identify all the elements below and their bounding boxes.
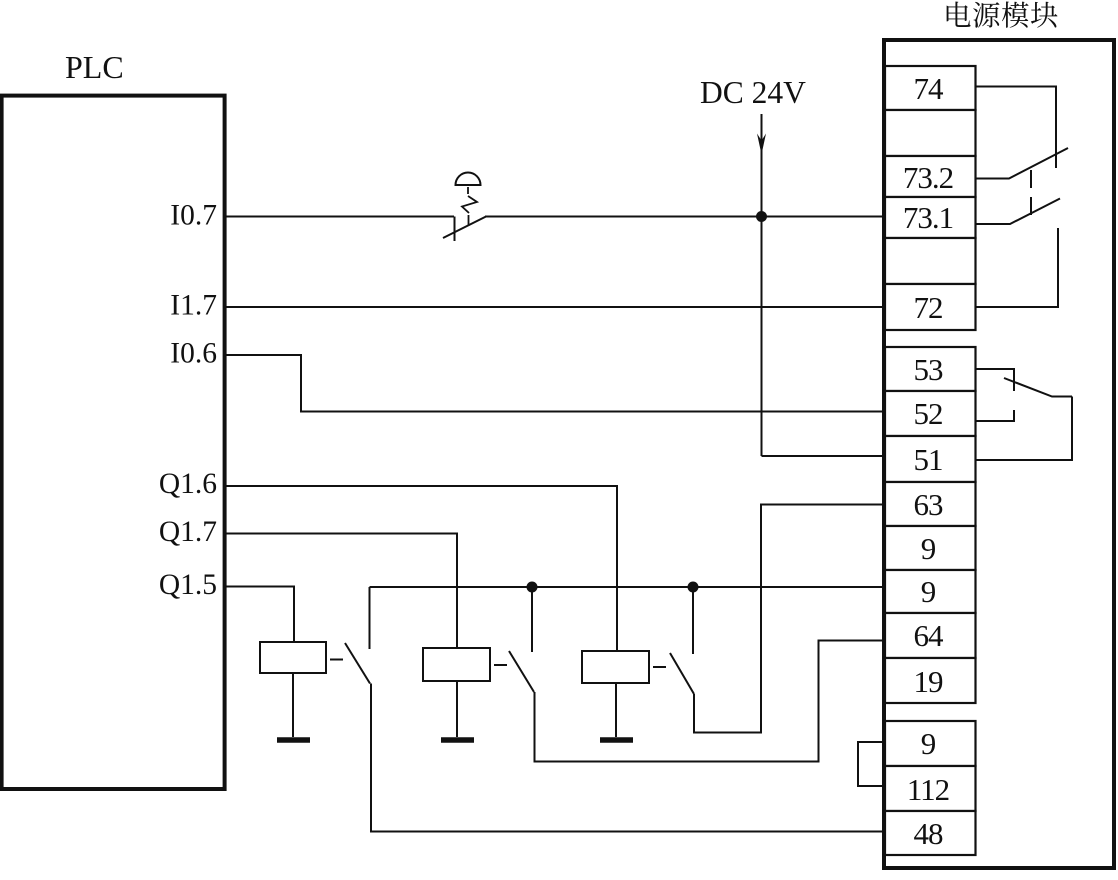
junction dot bus/contact K2: [527, 582, 538, 593]
terminal 53 (grp2): [885, 347, 976, 391]
svg-text:53: 53: [914, 352, 944, 387]
contact K3 top lead: [692, 587, 694, 654]
contact K1 top lead: [369, 587, 371, 649]
svg-text:Q1.6: Q1.6: [159, 468, 217, 500]
svg-text:74: 74: [914, 71, 945, 106]
svg-text:72: 72: [914, 290, 943, 325]
terminal 73.1 (grp1): [885, 197, 976, 238]
relay coil K2: [423, 648, 490, 681]
svg-text:9: 9: [921, 574, 936, 609]
switch S1 blade (73.2 to 74): [976, 148, 1069, 179]
contact K3 blade: [670, 653, 694, 694]
emergency stop NC contact fixed tick: [454, 217, 456, 242]
contact K2 top lead: [531, 587, 533, 652]
module switch S1 lead from 74: [976, 87, 1057, 169]
wire I0.7 right segment to terminal 73.1: [485, 216, 885, 218]
switch S3 stub from 53: [976, 369, 1015, 391]
svg-text:51: 51: [914, 442, 943, 477]
DC 24V arrowhead: [757, 134, 766, 155]
terminal 9 (grp2): [885, 526, 976, 570]
svg-text:Q1.7: Q1.7: [159, 516, 217, 548]
switch S3 blade: [1004, 378, 1072, 397]
svg-text:DC 24V: DC 24V: [700, 75, 806, 110]
coil K1 ground lead: [292, 673, 294, 737]
svg-text:I1.7: I1.7: [170, 290, 217, 322]
terminal 73.2 (grp1): [885, 156, 976, 197]
coil K3 ground lead: [615, 683, 617, 737]
wire Q1.5 to coil K1: [225, 587, 294, 643]
terminal 112 (grp3): [885, 766, 976, 811]
terminal 63 (grp2): [885, 482, 976, 526]
svg-text:Q1.5: Q1.5: [159, 569, 217, 601]
contact K3 bottom lead to terminal 63: [694, 505, 885, 733]
switch S2 lead to 72: [976, 228, 1059, 307]
wire Q1.6 to coil K3: [225, 486, 617, 651]
svg-text:73.2: 73.2: [903, 160, 953, 195]
switch S3 stub from 52: [976, 410, 1015, 421]
junction dot DC24V / I0.7: [756, 211, 767, 222]
power module box: [884, 40, 1114, 868]
relay coil K1: [260, 642, 326, 673]
svg-text:52: 52: [914, 396, 943, 431]
ground below K3: [600, 737, 633, 743]
terminal 51 (grp2): [885, 436, 976, 482]
K2 mechanical link dash: [494, 664, 507, 666]
wire DC24V into terminal 51: [762, 455, 886, 457]
coil K2 ground lead: [456, 681, 458, 737]
svg-text:73.1: 73.1: [903, 200, 953, 235]
emergency stop NC contact blade: [443, 217, 486, 239]
terminal blank (grp1): [885, 238, 976, 284]
terminal 64 (grp2): [885, 613, 976, 658]
wire I1.7 to terminal 72: [225, 306, 885, 308]
terminal 48 (grp3): [885, 811, 976, 855]
wire I0.7 left segment: [225, 216, 454, 218]
contact K1 blade: [345, 643, 370, 684]
svg-text:48: 48: [914, 816, 944, 851]
terminal 74 (grp1): [885, 66, 976, 110]
terminal 9 (grp2): [885, 570, 976, 613]
svg-text:9: 9: [921, 726, 936, 761]
mechanical link dashed S1-S2: [1030, 170, 1032, 216]
terminal 72 (grp1): [885, 284, 976, 330]
svg-text:64: 64: [914, 618, 945, 653]
wire Q1.7 to coil K2: [225, 534, 457, 649]
E-stop actuator dashed link with zigzag: [467, 187, 469, 194]
svg-text:9: 9: [921, 531, 936, 566]
ground below K1: [277, 737, 310, 743]
terminal blank (grp1): [885, 110, 976, 156]
K3 mechanical link dash: [653, 666, 666, 668]
svg-text:PLC: PLC: [65, 49, 124, 85]
relay coil K3: [582, 651, 649, 683]
svg-text:I0.7: I0.7: [170, 200, 217, 232]
contact K1 bottom lead to terminal 48: [371, 684, 885, 832]
svg-text:I0.6: I0.6: [170, 338, 217, 370]
switch S2 blade (73.1): [976, 199, 1061, 225]
terminal 19 (grp2): [885, 658, 976, 703]
ground below K2: [441, 737, 474, 743]
mushroom head (bell dome) of E-stop: [456, 172, 481, 185]
terminal 9 (grp3): [885, 721, 976, 766]
contact K2 blade: [509, 651, 534, 692]
K1 mechanical link dash: [330, 659, 343, 661]
contact K2 bottom lead to terminal 64: [535, 641, 886, 762]
DC 24V feed wire vertical: [761, 114, 763, 456]
switch S3 lead to 51: [976, 397, 1073, 461]
terminal 52 (grp2): [885, 391, 976, 436]
PLC box: [2, 96, 225, 789]
svg-text:112: 112: [907, 772, 949, 807]
label 电源模块 (drawn glyph outlines): [947, 2, 1058, 28]
wire I0.6 to terminal 52 (stepped): [225, 355, 885, 412]
junction dot bus/contact K3: [688, 582, 699, 593]
svg-text:19: 19: [914, 664, 944, 699]
jumper terminal 9 to 112: [858, 742, 885, 786]
svg-text:63: 63: [914, 487, 944, 522]
bus wire from contact K1 to terminal 9: [370, 586, 886, 588]
